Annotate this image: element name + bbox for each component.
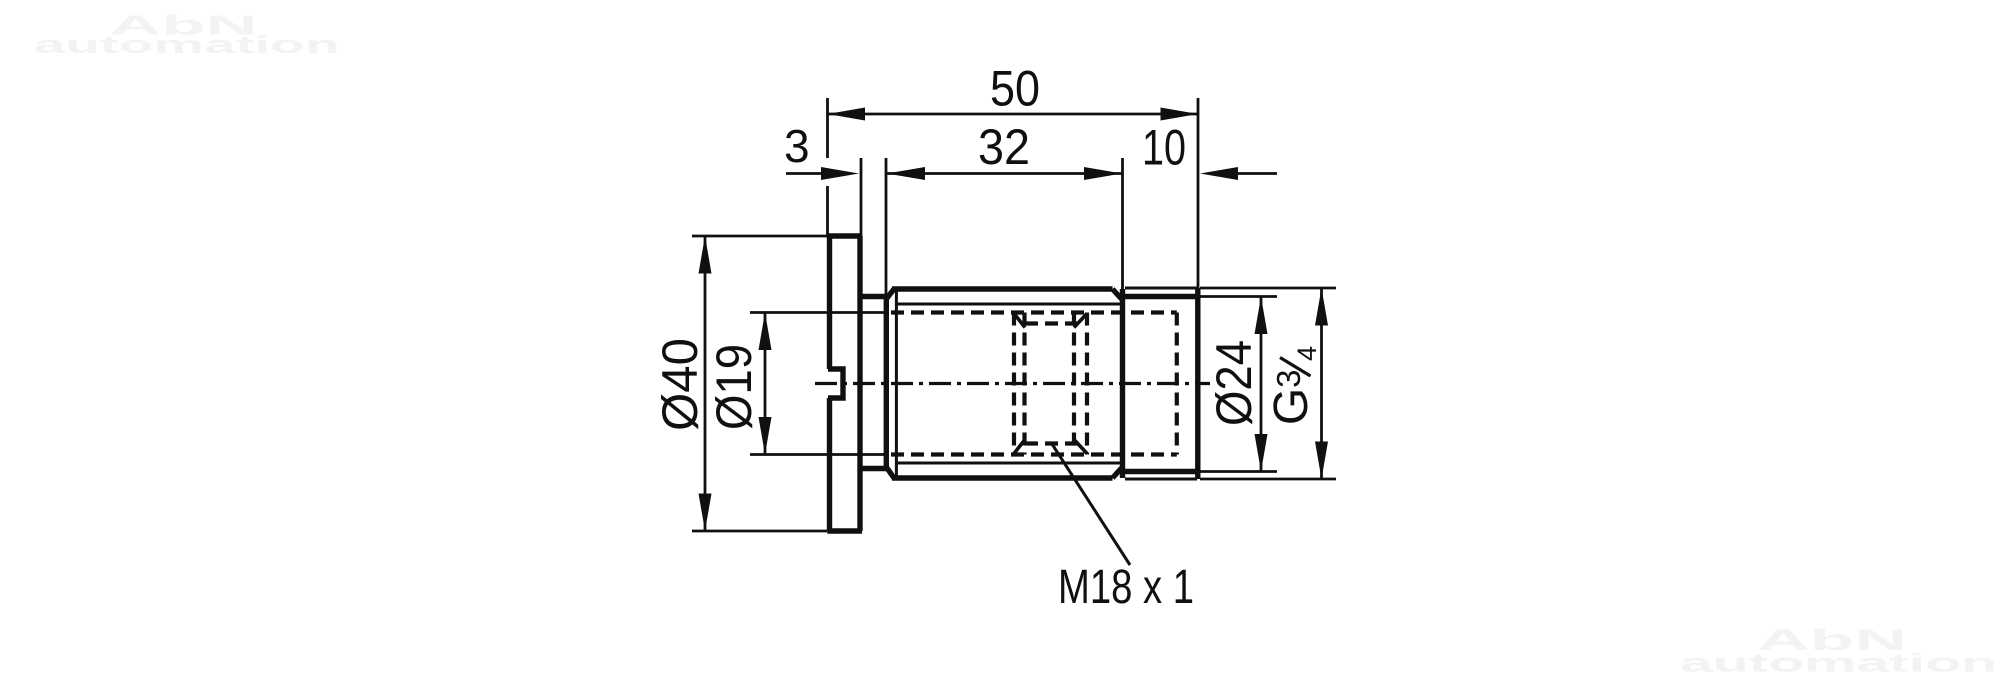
svg-text:automation: automation [34, 32, 340, 59]
svg-text:32: 32 [978, 119, 1030, 175]
svg-text:50: 50 [990, 61, 1040, 117]
svg-text:M18 x 1: M18 x 1 [1058, 561, 1194, 614]
svg-text:4: 4 [1292, 346, 1322, 361]
svg-text:Ø24: Ø24 [1206, 340, 1262, 426]
svg-text:Ø19: Ø19 [706, 344, 762, 430]
svg-text:3: 3 [784, 120, 810, 172]
svg-text:G: G [1265, 388, 1318, 425]
svg-text:Ø40: Ø40 [652, 338, 708, 431]
svg-text:10: 10 [1142, 120, 1186, 176]
svg-text:automation: automation [1680, 648, 1997, 678]
